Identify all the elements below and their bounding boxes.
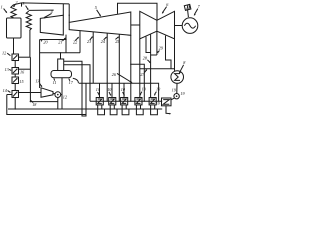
LP heater h5 [149,98,156,105]
deaerator tank 11 [51,71,72,78]
heater column connectors [14,61,16,68]
svg-text:12: 12 [63,95,67,100]
condensate line [90,100,162,102]
heater header [79,83,159,101]
svg-text:13: 13 [5,67,9,72]
small pump [174,94,179,99]
heater feed stubs [99,83,101,97]
LP waist [156,20,158,55]
svg-text:3: 3 [22,1,24,6]
tap bus [29,57,31,101]
HP heater V3 [12,77,19,84]
column pipe 1 [64,61,86,116]
condenser drop a [146,37,151,53]
condenser bottom [140,69,175,71]
condenser right wall [174,39,176,69]
heater drain loops [98,105,105,115]
pump-gland link [171,98,175,100]
HP heater V1 [12,54,19,61]
gland condenser [162,98,172,106]
reheater drain [29,31,31,58]
generator 7 [182,18,198,34]
HP heater V2 [12,68,19,75]
V4 tap [19,92,42,94]
FP turbine 13 [41,88,53,97]
pump discharge [30,101,57,103]
LP heater h1 [96,98,103,105]
LP heater h3 [121,98,128,105]
feed pump 12 [55,92,61,98]
LP heater h2 [109,98,116,105]
crossover pipe [118,3,158,20]
extraction v3 [92,32,94,83]
boiler 1 [7,18,22,38]
HP heater V4 [12,91,19,98]
condensate arc to deaerator [73,78,79,83]
main steam line [14,3,70,5]
svg-text:15: 15 [19,79,23,84]
V1 tap [19,56,31,58]
LP turbine [140,11,175,39]
branch to h45 gap [131,64,145,101]
IP turbine [69,12,131,35]
deaerator steam line [40,52,80,54]
stub [21,3,23,7]
IP admission [68,4,70,23]
condenser left wall [139,39,141,98]
gland drain [166,106,170,114]
HP admission [62,4,64,16]
svg-text:13: 13 [35,79,39,84]
HP turbine [40,15,63,35]
svg-text:14: 14 [3,88,7,93]
hot reheat line 4 [29,9,54,11]
reheater zigzag 3 [26,11,31,31]
extraction v6 [130,35,132,101]
condensate pump 8 [171,71,184,84]
left drain [7,94,12,96]
superheater zigzag 2 [11,5,16,18]
svg-text:5: 5 [95,5,97,10]
extraction v4 [106,33,108,101]
svg-text:23: 23 [87,39,91,44]
pump drop [176,83,178,93]
drain bus [8,108,162,110]
svg-text:12: 12 [2,51,6,56]
shaft [175,25,183,27]
LP heater h4 [135,98,142,105]
condenser link [151,54,157,56]
FP steam branch [40,39,66,41]
tank drop pipe [61,78,63,109]
svg-text:1: 1 [1,4,3,9]
condenser drop b [150,34,152,97]
svg-text:21: 21 [58,40,62,45]
deaerator column [58,59,64,71]
boiler feed pipe [13,38,15,54]
HP exhaust v1 [65,35,67,53]
column pipe 2 [64,65,90,102]
exciter symbol [187,10,190,17]
extraction v2 [79,31,81,53]
V2 tap [19,68,31,70]
extraction v5 [118,34,120,101]
condenser drop c [166,36,172,69]
junction dots [107,101,108,102]
IP-LP link [131,24,140,26]
FP steam down [39,40,41,89]
svg-text:11: 11 [53,80,57,85]
